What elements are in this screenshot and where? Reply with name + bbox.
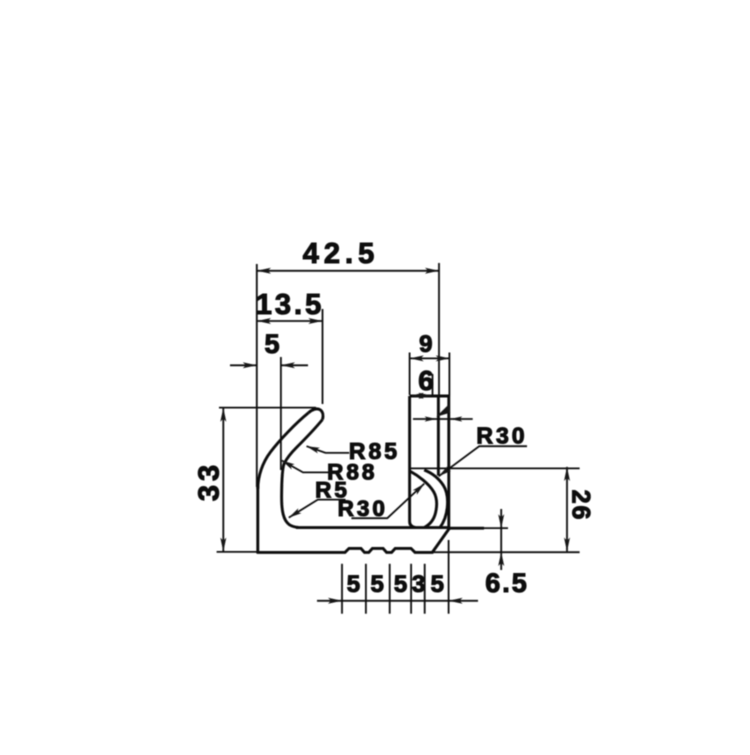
dim 33: top ext: [219, 407, 316, 409]
dim 555: ext6: [448, 540, 450, 614]
profile: left wall outer vertical: [256, 486, 259, 554]
svg-text:5: 5: [264, 329, 279, 359]
arrow 13.5 left: [257, 318, 271, 324]
leader R5: [289, 500, 346, 518]
arrow leader R30 bottom: [413, 484, 425, 495]
leader R85: [307, 446, 350, 453]
svg-text:42.5: 42.5: [303, 238, 379, 270]
profile: tip cap: [309, 409, 323, 420]
dim 13.5: line: [257, 320, 323, 322]
arrow 6.5 top: [498, 514, 504, 528]
profile: slit in wall: [437, 397, 440, 476]
profile: scoop inner arc: [410, 471, 437, 527]
profile: bottom fin: [449, 527, 484, 530]
dim 33: line: [222, 408, 224, 552]
profile: base bottom with serrations and chamfer: [257, 528, 450, 552]
slit leader triangle: [436, 405, 450, 417]
leader R30 top: [439, 446, 527, 476]
arrow 6 right: [419, 393, 433, 399]
svg-text:R30: R30: [476, 423, 527, 449]
leader R30 bottom: [351, 484, 424, 519]
arrow 33 bottom: [220, 538, 226, 552]
svg-text:5: 5: [371, 571, 384, 598]
arrow 9 right: [436, 355, 450, 361]
arrow tiny right: [450, 416, 462, 421]
dim 5553 5: line: [317, 600, 478, 602]
dim 6.5: top ref line: [483, 527, 508, 529]
leader R88: [282, 461, 329, 473]
svg-text:3: 3: [412, 571, 425, 598]
dim 9: line: [410, 357, 450, 359]
dim 26: bottom ext: [432, 551, 580, 553]
arrow 33 top: [220, 408, 226, 422]
svg-text:5: 5: [431, 571, 444, 598]
dim 5: right ext: [280, 357, 282, 470]
arrow 555 right: [449, 598, 463, 604]
arrow 42.5 right: [425, 268, 439, 274]
arrows placeholder: [220, 268, 570, 604]
arrow 6.5 bottom: [498, 552, 504, 566]
svg-text:5: 5: [347, 571, 360, 598]
svg-text:6.5: 6.5: [485, 568, 529, 598]
profile: scoop outer arc: [424, 470, 447, 528]
dim 26: top ext: [410, 467, 580, 469]
dim 555: ext3: [389, 564, 391, 614]
arrow 13.5 right: [308, 318, 322, 324]
dim 42.5: left ext (continues down to profile): [256, 264, 258, 487]
arrow 26 top: [564, 467, 570, 481]
profile: right wall right face: [447, 396, 450, 528]
arrow tiny left: [425, 416, 437, 421]
dim 555: ext4: [410, 564, 412, 614]
svg-text:5: 5: [394, 571, 407, 598]
dim 42.5: right ext: [438, 263, 440, 396]
dim 13.5: right ext: [322, 309, 324, 404]
dim 5: left tail: [230, 364, 257, 366]
dim 6: right ext: [432, 374, 434, 396]
svg-text:13.5: 13.5: [256, 289, 324, 321]
arrow 26 bottom: [564, 538, 570, 552]
dim 26: line: [566, 467, 568, 552]
arrow leader R88: [282, 461, 295, 470]
arrow 6 left: [410, 393, 424, 399]
dim 42.5: line: [257, 270, 440, 272]
dim 5: right tail: [281, 364, 308, 366]
arrow 42.5 left: [257, 268, 271, 274]
arrow leader R85: [307, 446, 320, 453]
arrow 5 left: [243, 362, 257, 368]
dim 555: ext1: [341, 564, 343, 614]
arrow 5 right: [281, 362, 295, 368]
arrow leader R5: [289, 508, 302, 517]
svg-text:6: 6: [418, 365, 434, 396]
dim 33: bottom ext: [217, 551, 257, 553]
svg-text:33: 33: [194, 461, 226, 501]
profile: right wall left face: [410, 396, 416, 528]
dim 555: ext5: [424, 564, 426, 614]
arrow 9 left: [410, 355, 424, 361]
dim 6.5: vertical: [500, 509, 502, 570]
profile: right wall top edge (also 6-dim line): [410, 395, 449, 398]
svg-text:26: 26: [567, 490, 595, 522]
svg-text:9: 9: [419, 331, 432, 358]
arrow 555 left: [328, 598, 342, 604]
profile: outer arc to tip: [258, 413, 309, 489]
arrow leader R30 top: [439, 466, 451, 476]
dim 9: left ext: [409, 353, 411, 396]
svg-text:R30: R30: [338, 496, 388, 521]
tiny dim near slit: [413, 418, 473, 420]
dim 555: ext2: [365, 564, 367, 614]
dim 9: right ext: [448, 353, 450, 397]
profile: finger inner edge: [282, 420, 323, 528]
profile: slot floor: [296, 526, 449, 529]
